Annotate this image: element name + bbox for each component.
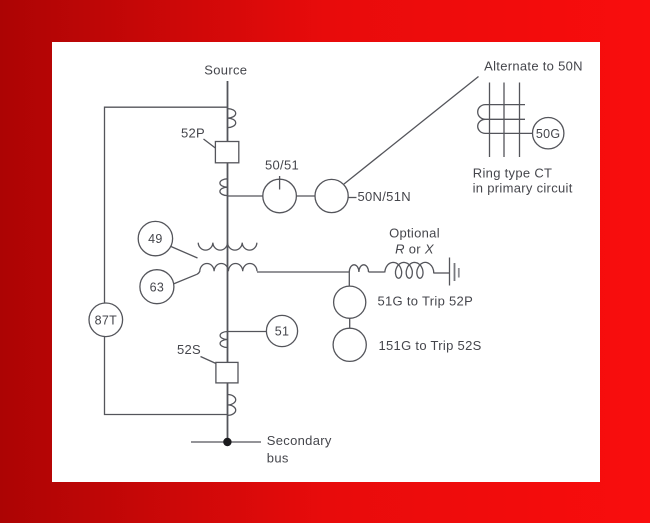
svg-text:in primary circuit: in primary circuit [473, 181, 573, 196]
svg-text:151G to Trip 52S: 151G to Trip 52S [379, 338, 482, 353]
svg-text:50G: 50G [536, 127, 561, 141]
svg-text:49: 49 [148, 232, 163, 246]
svg-text:51: 51 [275, 325, 290, 339]
svg-text:52S: 52S [177, 342, 201, 357]
svg-text:51G to Trip 52P: 51G to Trip 52P [378, 294, 474, 309]
svg-text:63: 63 [150, 280, 165, 294]
svg-text:Source: Source [204, 63, 247, 78]
svg-text:50/51: 50/51 [265, 158, 299, 173]
svg-text:52P: 52P [181, 125, 205, 140]
svg-text:Secondary: Secondary [267, 433, 332, 448]
svg-text:bus: bus [267, 450, 289, 465]
svg-text:Optional: Optional [389, 225, 440, 240]
svg-text:Ring type CT: Ring type CT [473, 165, 552, 180]
svg-text:Alternate to 50N: Alternate to 50N [484, 58, 583, 73]
svg-text:R or X: R or X [395, 241, 435, 256]
svg-text:50N/51N: 50N/51N [358, 189, 411, 204]
svg-text:87T: 87T [95, 313, 118, 327]
